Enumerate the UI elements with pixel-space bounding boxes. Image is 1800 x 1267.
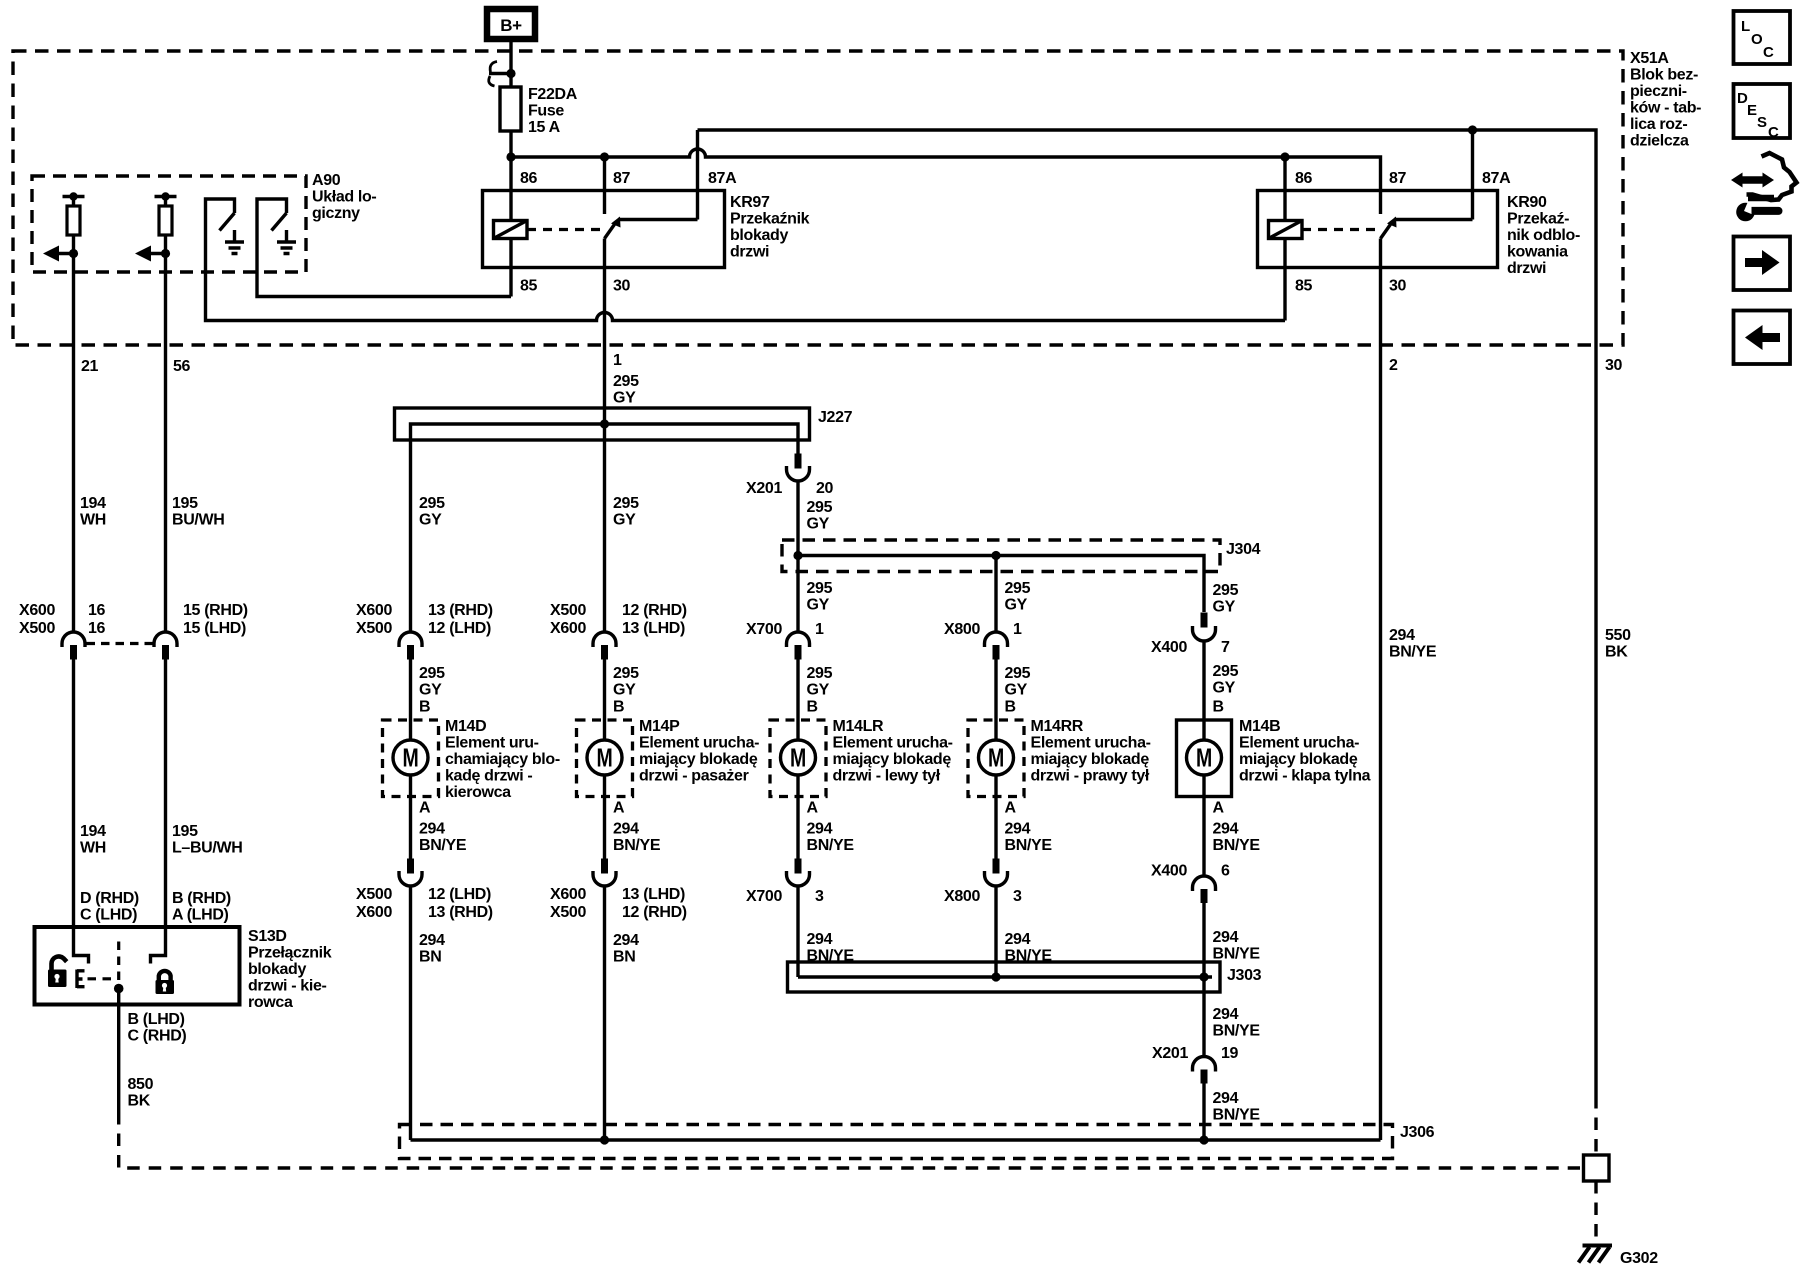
wire 550 BK dashed segment	[1594, 1096, 1597, 1155]
S13D contact arm 2	[151, 927, 166, 964]
wire 294 branch5 below motor	[1202, 775, 1205, 877]
svg-text:B (LHD)C (RHD): B (LHD)C (RHD)	[128, 1011, 187, 1045]
connector X600/X500 pin 15 pin stub wire B	[162, 645, 169, 660]
wire B+ down to fuse	[509, 39, 512, 87]
wire 294 BN/YE branch5 to J303	[1202, 903, 1205, 978]
wire fuse to bus y157	[509, 131, 512, 157]
relay KR90 pin87 stub	[1379, 191, 1382, 215]
icon connector-repair symbol (double arrow, outline, wrench)	[1731, 153, 1797, 221]
A90 resistor 1 body	[67, 206, 80, 235]
svg-text:295GY: 295GY	[613, 495, 639, 529]
A90 output arrow 1	[57, 252, 74, 255]
svg-text:850BK: 850BK	[128, 1076, 154, 1110]
svg-text:G302: G302	[1620, 1250, 1658, 1267]
svg-text:B (RHD)A (LHD): B (RHD)A (LHD)	[172, 890, 231, 924]
svg-text:295GY: 295GY	[419, 495, 445, 529]
svg-text:M: M	[403, 745, 419, 773]
S13D unlock padlock icon (open)	[48, 956, 67, 987]
svg-text:1616: 1616	[88, 602, 106, 637]
svg-text:87: 87	[613, 170, 631, 187]
wire 294 BN/YE branch3 to J303	[796, 886, 799, 977]
svg-text:86: 86	[520, 170, 538, 187]
splice pack J303 box	[788, 962, 1221, 992]
A90 switch 2 frame	[257, 199, 287, 272]
svg-text:1: 1	[613, 352, 622, 369]
motor M14B circle	[1187, 740, 1222, 775]
svg-text:B: B	[1213, 699, 1224, 716]
svg-text:S: S	[1757, 114, 1767, 131]
svg-text:295GY: 295GY	[807, 499, 833, 533]
wire 295 GY branch4 to X800	[994, 556, 997, 633]
junction dot KR90 87A/bus	[1468, 125, 1477, 134]
bus wire y=130 from KR97 87A to 550 BK corner	[698, 130, 1597, 157]
wire 294 BN branch2 to J306	[603, 886, 606, 1140]
svg-text:J306: J306	[1400, 1124, 1435, 1141]
junction dot KR90 pin86/bus	[1280, 152, 1289, 161]
S13D dashed center line	[117, 942, 120, 985]
svg-text:M: M	[597, 745, 613, 773]
svg-text:19: 19	[1221, 1045, 1239, 1062]
junction dot J303 branch5	[1199, 972, 1208, 981]
actuator M14RR dashed box	[968, 720, 1024, 797]
A90 resistor 2 top tick	[155, 195, 177, 198]
junction dot J304 branch3	[793, 551, 802, 560]
svg-text:295GY: 295GY	[1213, 582, 1239, 616]
svg-text:X700: X700	[746, 621, 782, 638]
A90 switch 2 ground	[277, 230, 296, 254]
svg-text:2: 2	[1389, 357, 1398, 374]
svg-text:294BN: 294BN	[419, 932, 445, 966]
wire KR97 pin87 drop	[603, 157, 606, 214]
svg-text:B: B	[419, 699, 430, 716]
svg-text:85: 85	[1295, 278, 1313, 295]
svg-text:295GY: 295GY	[1213, 663, 1239, 697]
svg-text:87: 87	[1389, 170, 1407, 187]
junction dot J303 branch4	[991, 972, 1000, 981]
svg-text:12 (RHD)13 (LHD): 12 (RHD)13 (LHD)	[622, 602, 687, 637]
svg-text:B+: B+	[500, 16, 522, 35]
wire 295 GY to X201 pin20	[796, 440, 799, 454]
connector X201 pin 20 (pin+cup)	[795, 454, 802, 469]
svg-text:A: A	[807, 800, 819, 817]
icon DESC box	[1734, 84, 1791, 138]
dashed connector link X600/X500	[87, 642, 154, 645]
harness J304 dashed box	[782, 540, 1220, 572]
connector X600/X500 pin 16 pin stub wire A	[70, 645, 77, 660]
svg-text:X500X600: X500X600	[550, 602, 586, 637]
svg-text:85: 85	[520, 278, 538, 295]
svg-text:M: M	[988, 745, 1004, 773]
wire 295 GY branch1 to motor	[409, 659, 412, 740]
actuator M14D dashed box	[383, 720, 439, 797]
svg-text:A: A	[613, 800, 625, 817]
svg-text:D (RHD)C (LHD): D (RHD)C (LHD)	[80, 890, 139, 924]
fuse clip symbol	[489, 62, 497, 87]
relay KR90 coil-switch dashed link	[1302, 228, 1377, 231]
logic module A90 dashed box	[32, 176, 306, 272]
A90 switch 1 frame	[206, 199, 235, 272]
A90 resistor 2 body	[159, 206, 172, 235]
motor M14RR circle	[979, 740, 1014, 775]
wire KR97 pin85 run to A90 switch 2	[257, 272, 511, 297]
motor M14D circle	[393, 740, 428, 775]
wire 294 BN branch1 to J306	[409, 886, 412, 1140]
switch S13D box	[35, 927, 240, 1005]
relay KR90 pin30 wire down to J306	[1379, 239, 1382, 1141]
S13D contact arm 1	[74, 927, 89, 964]
wire KR90 87A drop	[1471, 130, 1474, 220]
junction dot fuse/bus	[506, 152, 515, 161]
svg-text:X400: X400	[1151, 863, 1187, 880]
junction dot J227	[600, 419, 609, 428]
junction dot KR97 pin87/bus	[600, 152, 609, 161]
A90 resistor 2 wires	[164, 197, 167, 273]
svg-text:X600X500: X600X500	[19, 602, 55, 637]
relay KR97 87A contact wire	[618, 218, 698, 221]
S13D output wire	[117, 989, 120, 1113]
wire 195 L-BU/WH lower segment	[164, 659, 167, 927]
svg-text:295GY: 295GY	[807, 580, 833, 614]
svg-text:C: C	[1768, 124, 1779, 141]
S13D dashed actuator link	[88, 977, 115, 980]
wire 294 branch3 below motor	[796, 775, 799, 859]
svg-text:87A: 87A	[1482, 170, 1511, 187]
splice pack J303 internal bus	[798, 975, 1212, 978]
svg-text:X500X600: X500X600	[356, 886, 392, 921]
svg-text:X800: X800	[944, 621, 980, 638]
wire 295 GY branch3 to X700	[796, 556, 799, 633]
svg-text:13 (LHD)12 (RHD): 13 (LHD)12 (RHD)	[622, 886, 687, 921]
S13D center junction dot	[114, 984, 124, 994]
wire 550 BK solid segment	[1594, 157, 1597, 1096]
svg-text:295GY: 295GY	[419, 665, 445, 699]
A90 switch 1 blade	[220, 213, 235, 231]
connector X400 pin6 (dome)	[1193, 876, 1216, 891]
svg-text:550BK: 550BK	[1605, 627, 1631, 661]
svg-text:194WH: 194WH	[80, 495, 106, 529]
connector X600/X500 pin 15 on wire B (dome)	[154, 632, 177, 647]
connector X800 pin3 (pin+cup)	[993, 859, 1000, 874]
svg-text:56: 56	[173, 358, 191, 375]
svg-text:194WH: 194WH	[80, 823, 106, 857]
svg-text:1: 1	[1013, 621, 1022, 638]
wire 295 GY branch4 to motor	[994, 659, 997, 740]
svg-text:B: B	[613, 699, 624, 716]
svg-text:295GY: 295GY	[1005, 580, 1031, 614]
svg-text:295GY: 295GY	[807, 665, 833, 699]
relay KR97 blade arrowhead	[611, 217, 621, 228]
svg-text:M: M	[1196, 745, 1212, 773]
A90 resistor 2 top dot	[161, 192, 169, 200]
svg-text:A: A	[1005, 800, 1017, 817]
svg-text:294BN: 294BN	[613, 932, 639, 966]
svg-text:295GY: 295GY	[613, 665, 639, 699]
connector X500/X600 branch2 (dome)	[593, 632, 616, 647]
svg-text:6: 6	[1221, 863, 1230, 880]
wire 295 GY branch3 to motor	[796, 659, 799, 740]
splice pack J227 internal bus	[411, 424, 799, 440]
connector X500/X600 branch1 lower (pin+cup)	[407, 859, 414, 874]
wire 194 WH upper segment (circuit 21)	[72, 272, 75, 633]
svg-text:C: C	[1763, 44, 1774, 61]
battery feed B+ terminal box	[487, 9, 535, 39]
svg-text:M: M	[790, 745, 806, 773]
relay KR90 coil	[1269, 221, 1303, 239]
wire 295 GY branch1 from J227	[409, 440, 412, 633]
connector X600/X500 pin 16 on wire A (dome)	[62, 632, 85, 647]
relay KR97 coil	[494, 221, 528, 239]
svg-text:30: 30	[613, 278, 631, 295]
svg-text:X600X500: X600X500	[356, 602, 392, 637]
svg-text:J227: J227	[818, 409, 853, 426]
svg-text:X400: X400	[1151, 639, 1187, 656]
wire KR90 pin86 drop	[1283, 157, 1286, 221]
ground pass-through connector square	[1584, 1155, 1610, 1181]
A90 output arrow 2	[149, 252, 166, 255]
svg-text:L: L	[1741, 18, 1750, 35]
svg-text:21: 21	[81, 358, 99, 375]
svg-text:J304: J304	[1226, 541, 1261, 558]
svg-text:A: A	[1213, 800, 1225, 817]
wire 295 GY branch2 from J227	[603, 424, 606, 633]
motor M14P circle	[587, 740, 622, 775]
harness J304 internal bus	[798, 556, 1204, 613]
connector X400 pin7 (pin+cup)	[1201, 613, 1208, 628]
relay KR90 87A contact wire	[1394, 218, 1473, 221]
relay KR90 blade arrowhead	[1387, 217, 1397, 228]
relay KR90 box	[1258, 191, 1498, 268]
actuator M14P dashed box	[577, 720, 633, 797]
fuse F22DA body	[500, 87, 521, 131]
wire 194 WH lower segment	[72, 659, 75, 927]
connector X700 pin3 (pin+cup)	[795, 859, 802, 874]
junction dot at fuse top	[506, 69, 515, 78]
svg-text:86: 86	[1295, 170, 1313, 187]
svg-text:295GY: 295GY	[1005, 665, 1031, 699]
svg-text:3: 3	[815, 888, 824, 905]
wire 294 branch2 below motor	[603, 775, 606, 859]
relay KR97 coil lower wire to pin85	[509, 239, 512, 297]
svg-text:13 (RHD)12 (LHD): 13 (RHD)12 (LHD)	[428, 602, 493, 637]
dashed wire square to ground	[1594, 1181, 1597, 1241]
wire KR90 pin85 run to A90 switch 1 (with hop over KR97 pin30)	[206, 272, 1286, 321]
wire 294 branch1 below motor	[409, 775, 412, 859]
wire 294 branch4 below motor	[994, 775, 997, 859]
svg-text:3: 3	[1013, 888, 1022, 905]
svg-text:30: 30	[1605, 357, 1623, 374]
motor M14LR circle	[781, 740, 816, 775]
wire 294 BN/YE X201 to J306	[1202, 1084, 1205, 1141]
junction dot J306 branch5	[1199, 1135, 1208, 1144]
svg-text:20: 20	[816, 480, 834, 497]
ground G302 symbol	[1579, 1246, 1613, 1263]
svg-text:E: E	[1747, 102, 1757, 119]
relay KR97 pin30 wire down	[603, 239, 606, 425]
relay KR97 box	[483, 191, 725, 268]
wire 295 GY branch5 to motor	[1202, 641, 1205, 741]
connector X800 pin1 (dome)	[985, 632, 1008, 647]
relay KR97 coil-switch dashed link	[527, 228, 601, 231]
fuse block X51A dashed boundary box	[13, 51, 1623, 345]
wire 294 BN/YE branch4 to J303	[994, 886, 997, 977]
connector X600/X500 branch2 lower (pin+cup)	[601, 859, 608, 874]
svg-text:12 (LHD)13 (RHD): 12 (LHD)13 (RHD)	[428, 886, 493, 921]
svg-text:X201: X201	[746, 480, 782, 497]
relay KR90 switch blade	[1381, 222, 1393, 239]
connector X201 pin 19 (dome)	[1193, 1057, 1216, 1072]
harness J306 internal ground bus	[411, 1138, 1381, 1141]
svg-text:J303: J303	[1227, 967, 1262, 984]
svg-text:X800: X800	[944, 888, 980, 905]
splice pack J227 box	[395, 408, 810, 440]
junction dot J306 branch2	[600, 1135, 609, 1144]
svg-text:A: A	[419, 800, 431, 817]
svg-text:B: B	[1005, 699, 1016, 716]
A90 junction dot 1	[69, 249, 78, 258]
S13D lock padlock icon (closed)	[156, 971, 175, 994]
icon back-arrow box	[1734, 311, 1791, 365]
harness J306 dashed box	[400, 1125, 1393, 1159]
svg-text:30: 30	[1389, 278, 1407, 295]
svg-text:295GY: 295GY	[613, 373, 639, 407]
relay KR97 switch blade	[605, 222, 617, 239]
relay KR90 coil lower wire to pin85	[1283, 239, 1286, 321]
A90 resistor 1 top dot	[69, 192, 77, 200]
svg-text:B: B	[807, 699, 818, 716]
actuator M14B solid box	[1177, 720, 1232, 797]
bus wire y=157 from fuse to KR90 pin 87	[511, 149, 1381, 191]
wire 850 BK dashed run to ground	[119, 1112, 1580, 1168]
svg-text:X201: X201	[1152, 1045, 1188, 1062]
connector X600/X500 branch1 (dome)	[399, 632, 422, 647]
A90 switch 1 ground	[225, 230, 244, 254]
wire clip to junction	[489, 72, 511, 75]
wire 295 GY branch2 to motor	[603, 659, 606, 740]
actuator M14LR dashed box	[770, 720, 826, 797]
svg-text:X600X500: X600X500	[550, 886, 586, 921]
svg-text:87A: 87A	[708, 170, 737, 187]
wire 294 BN/YE J303 to X201 pin19	[1202, 977, 1205, 1057]
A90 switch 2 blade	[272, 213, 287, 231]
svg-text:7: 7	[1221, 639, 1230, 656]
A90 resistor 1 wires	[72, 197, 75, 273]
icon forward-arrow box	[1734, 237, 1791, 291]
wire KR97 pin86 drop	[509, 157, 512, 221]
icon LOC box	[1734, 11, 1791, 64]
svg-text:1: 1	[815, 621, 824, 638]
wire 195 BU/WH upper segment (circuit 56)	[164, 272, 167, 633]
svg-text:O: O	[1751, 31, 1763, 48]
svg-text:X700: X700	[746, 888, 782, 905]
A90 junction dot 2	[161, 249, 170, 258]
wire 295 GY X201 to J304	[796, 481, 799, 556]
junction dot J304 branch4	[991, 551, 1000, 560]
A90 resistor 1 top tick	[63, 195, 85, 198]
svg-text:15 (RHD)15 (LHD): 15 (RHD)15 (LHD)	[183, 602, 248, 637]
wire KR97 87A riser to bus y130	[696, 130, 699, 220]
S13D moving contact E	[77, 970, 85, 989]
connector X700 pin1 (dome)	[787, 632, 810, 647]
